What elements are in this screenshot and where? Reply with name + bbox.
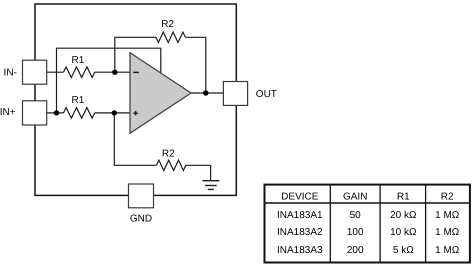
svg-text:5 kΩ: 5 kΩ [393,245,414,256]
svg-text:R2: R2 [441,191,454,202]
svg-text:OUT: OUT [256,89,277,100]
resistor R2 (feedback) [156,19,185,42]
wire IN- to R1 [45,71,64,73]
svg-text:IN-: IN- [4,68,17,79]
wire IN+ supply tap to op-amp power [57,48,161,113]
wire op-amp output to OUT pin [191,92,223,94]
svg-text:R1: R1 [72,95,85,106]
svg-text:R2: R2 [162,148,175,159]
svg-text:DEVICE: DEVICE [281,191,319,202]
svg-text:1 MΩ: 1 MΩ [435,227,460,238]
resistor R1 (lower) [64,95,95,118]
resistor R1 (upper) [64,55,95,77]
node junction inverting input [112,70,117,75]
wire R2 (ground leg) to ground symbol [186,165,211,180]
wire R1 to op-amp non-inverting input [95,112,130,114]
svg-text:R2: R2 [161,19,174,30]
wire IN+ to R1 [45,112,64,114]
resistor R2 (ground leg) [156,148,185,170]
svg-text:100: 100 [347,227,364,238]
svg-text:IN+: IN+ [0,107,16,118]
svg-text:200: 200 [347,245,364,256]
svg-text:INA183A1: INA183A1 [277,210,323,221]
pin GND [129,184,154,225]
svg-text:INA183A2: INA183A2 [277,227,323,238]
op-amp U1 [130,53,191,134]
svg-text:R1: R1 [397,191,410,202]
wire R2 (feedback) to output node [185,37,205,93]
pin IN+ [0,101,47,125]
IC boundary box [35,4,236,195]
svg-text:R1: R1 [72,55,85,66]
svg-text:50: 50 [350,210,362,221]
node junction on IN+ (supply tap) [54,110,59,115]
svg-text:GND: GND [130,214,152,225]
svg-text:GAIN: GAIN [343,191,367,202]
node junction output [203,90,208,95]
pin OUT [223,82,277,106]
wire non-inverting node to R2 (ground leg) [114,113,156,165]
node junction non-inverting input [112,110,117,115]
ground [202,181,219,190]
wire R1 to op-amp inverting input [95,71,130,73]
svg-text:20 kΩ: 20 kΩ [390,210,417,221]
svg-text:1 MΩ: 1 MΩ [435,245,460,256]
wire feedback node to R2 (feedback) [115,37,156,72]
svg-text:INA183A3: INA183A3 [277,245,323,256]
svg-text:1 MΩ: 1 MΩ [435,210,460,221]
pin IN- [4,60,47,84]
svg-text:10 kΩ: 10 kΩ [390,227,417,238]
gain table [265,185,470,263]
